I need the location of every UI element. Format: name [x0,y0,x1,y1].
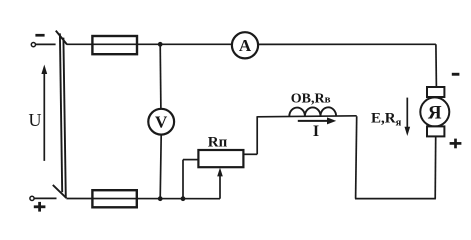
I arrow [298,120,330,122]
wire [36,43,56,45]
wire coil baseline [257,116,357,117]
voltmeter wire lower [160,135,161,199]
wire rheostat left riser [182,160,184,199]
rheostat Rп [198,150,243,167]
svg-text:I: I [313,123,319,140]
wire bottom right loop [355,198,436,200]
node junction top [158,42,163,47]
bus line left [60,33,62,192]
voltmeter V [148,109,174,135]
ammeter A [232,32,258,58]
bus line right [63,38,65,198]
svg-text:V: V [155,113,168,132]
plus sign (armature bottom) [450,139,462,149]
svg-text:Я: Я [428,102,442,123]
E arrow (down) [406,98,408,131]
minus sign (armature top) [452,73,460,76]
plus sign [34,202,46,212]
switch blade top [56,31,67,45]
armature motor Я [420,97,449,126]
wire right side down [435,44,438,87]
svg-text:U: U [29,110,42,130]
wire stub to rheostat right [243,153,257,155]
field winding coil OB [289,107,336,116]
wire ammeter to right corner [258,43,436,45]
fuse F2 bottom [92,190,136,207]
svg-text:Rп: Rп [208,135,228,151]
switch blade bottom [53,185,67,198]
svg-text:A: A [239,36,252,55]
rheostat wiper arrow [219,173,221,199]
wire [34,197,56,199]
U arrow [43,70,45,161]
terminal minus (top left) [31,43,35,47]
svg-text:ОВ,Rв: ОВ,Rв [291,92,331,107]
node junction bottom (voltmeter) [158,196,163,201]
wire rheostat left stub [183,159,198,161]
wire coil to rheostat riser [256,116,258,154]
wire loop riser [356,116,357,198]
terminal plus (bottom left) [30,196,34,200]
wire top rail [67,43,232,45]
minus sign [35,34,44,37]
fuse F1 top [92,36,137,54]
node junction bottom (rheostat) [181,196,186,201]
brush top [427,87,444,97]
wire armature down [434,136,437,198]
wire bottom bus [66,198,220,200]
brush bottom [427,126,444,136]
voltmeter wire upper [159,44,162,109]
